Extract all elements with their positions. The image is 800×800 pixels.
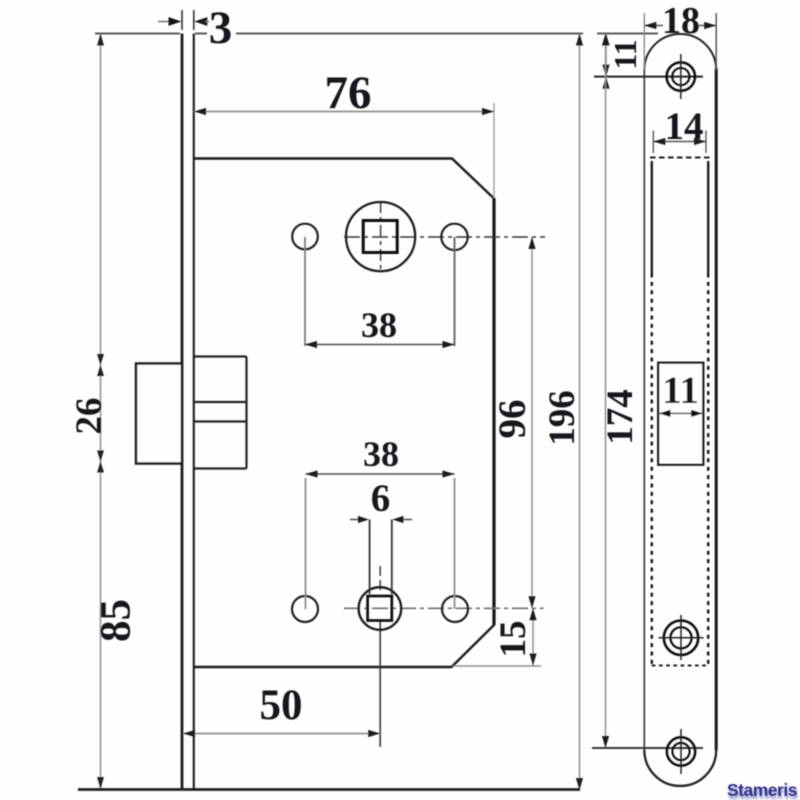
svg-text:174: 174 (600, 389, 641, 445)
lower spindle circle (359, 587, 402, 630)
bottom edge extension for 15 (453, 665, 541, 667)
svg-text:96: 96 (491, 400, 534, 439)
svg-text:6: 6 (371, 477, 391, 520)
upper spindle square (363, 221, 397, 253)
left chain arrow bottom (97, 777, 104, 789)
lower spindle extension to 50 dim (379, 621, 381, 748)
dimension 76 line (194, 111, 494, 113)
lower dimension 38 line (306, 473, 455, 475)
upper holes centerline horizontal (344, 236, 545, 238)
svg-text:11: 11 (607, 39, 643, 69)
dimension 6 arrows (350, 519, 358, 521)
svg-text:85: 85 (93, 599, 140, 642)
dimension 15 line (532, 608, 534, 665)
dimension 14 line (653, 141, 706, 143)
hidden case dotted right side (707, 274, 709, 666)
hidden case dashed bottom (652, 665, 709, 667)
faceplate top arc (644, 34, 716, 70)
bottom reference line (78, 788, 580, 791)
dimension 14 extensions (652, 131, 654, 154)
bottom screw hole reference line (592, 747, 703, 749)
bottom screw hole (667, 737, 695, 765)
lock body outline (194, 159, 494, 668)
lock body right edge thick (492, 199, 495, 626)
dimension 50 line (183, 733, 380, 735)
faceplate left edge (643, 68, 645, 750)
faceplate side view left edge (181, 34, 184, 791)
faceplate side view right edge (193, 34, 195, 791)
deadbolt dimension 11 line (658, 412, 703, 414)
svg-text:196: 196 (542, 390, 583, 446)
dimension 174 line (605, 34, 607, 749)
upper dimension 38 line (305, 344, 455, 346)
middle screw hole (664, 621, 698, 655)
svg-text:76: 76 (325, 67, 372, 119)
upper spindle circle (346, 202, 415, 271)
dimension 3 arrows and tails (158, 21, 171, 23)
chain arrows at latch bottom (97, 451, 104, 473)
svg-text:26: 26 (69, 398, 110, 435)
dimension 18 extensions (643, 13, 645, 70)
lower left hole (292, 596, 318, 622)
deadbolt window (658, 363, 703, 465)
dimension 76 right extension (493, 103, 495, 198)
lower dimension 38 extensions (305, 478, 307, 609)
dimension 6 extensions (369, 520, 371, 595)
dimension 3 extension lines (181, 10, 183, 30)
upper left hole (292, 224, 318, 250)
dimension 96 line (531, 237, 533, 608)
upper spindle centerline vertical (380, 201, 382, 271)
chain arrows at latch top (97, 354, 104, 376)
latch assembly inside body (194, 357, 247, 469)
latch bolt block (left of faceplate) (136, 364, 182, 464)
svg-text:15: 15 (493, 621, 534, 658)
svg-text:Stameris: Stameris (727, 780, 798, 800)
svg-text:18: 18 (662, 0, 700, 42)
upper right hole (441, 224, 467, 250)
svg-text:38: 38 (363, 434, 399, 474)
left chain arrow top (97, 34, 104, 46)
dimension 11 top line (605, 34, 607, 77)
lower right hole (442, 596, 468, 622)
svg-text:50: 50 (260, 682, 303, 729)
faceplate right edge (715, 68, 718, 750)
lower holes centerline horizontal (344, 607, 544, 609)
faceplate bottom arc (644, 750, 716, 786)
dimension 196 line (579, 34, 581, 791)
bottom screw hole vertical centerline (680, 729, 682, 774)
svg-text:3: 3 (209, 2, 233, 54)
lower spindle square (368, 596, 392, 621)
svg-text:11: 11 (662, 369, 699, 412)
top screw hole vertical centerline (680, 54, 682, 99)
lower spindle centerline vertical upper part (379, 566, 381, 590)
latch window solid sides (651, 161, 653, 274)
svg-text:14: 14 (665, 105, 704, 148)
middle screw hole centerlines (659, 637, 704, 639)
left chained dimension line (100, 34, 102, 790)
hidden case dashed top (650, 157, 710, 159)
hidden case dotted left side (651, 274, 653, 666)
svg-text:38: 38 (361, 305, 397, 345)
top screw hole (667, 62, 695, 90)
upper dimension 38 extensions (304, 237, 306, 346)
dimension 18 line and arrows (644, 25, 663, 27)
top reference line (95, 33, 658, 35)
top screw hole reference line (594, 76, 703, 78)
